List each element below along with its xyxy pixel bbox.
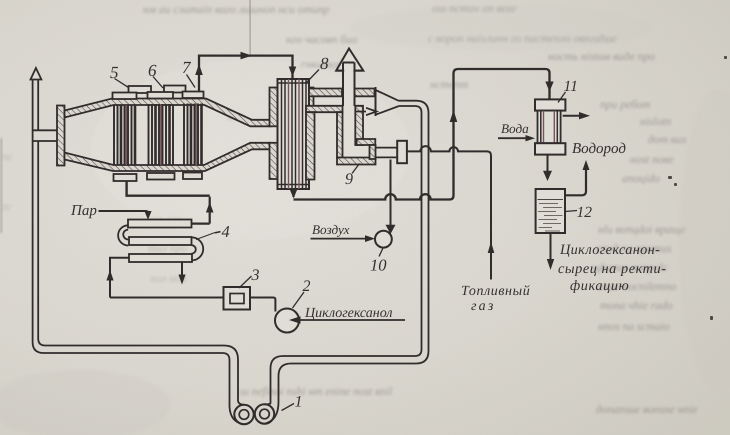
label 11 leader: [558, 92, 566, 103]
pipe from burner down right side: outer line: [265, 101, 429, 424]
svg-text:нм аи слиmain ваго лшиноп нси: нм аи слиmain ваго лшиноп нси оmunp: [143, 4, 329, 16]
top header H2: [148, 92, 174, 99]
duct band top (right of stack arrow): [355, 89, 375, 97]
filter 3 inner box: [230, 294, 244, 304]
line 11 to separator 12: [547, 155, 549, 172]
pipe from burner down right side: inner line: [265, 106, 422, 404]
duct band top right of unit 8 (left of stack arrow): [309, 89, 342, 97]
arrow right on outlet: [241, 52, 253, 60]
svg-text:Пар: Пар: [70, 203, 97, 219]
svg-text:9: 9: [345, 171, 353, 188]
unit 9 wall: step horizontal band: [357, 139, 376, 145]
bottom header B1: [114, 174, 137, 181]
label 1 leader: [282, 404, 295, 411]
air line arrow down: [386, 225, 396, 234]
product line from unit 8 to condenser 11: [294, 69, 550, 200]
arrow up on outlet: [195, 64, 203, 75]
fuel gas arrow up: [488, 242, 495, 254]
water inlet arrow: [498, 137, 527, 139]
chimney / feed pipe: left line down, bottom turn right, down to coil 1: [33, 80, 244, 425]
channel lines to damper: [376, 148, 398, 158]
line from filter 3 to HX4 inlet: [110, 297, 224, 299]
svg-text:Водород: Водород: [572, 141, 626, 157]
HX4 inlet: vertical with up arrow: [110, 258, 129, 298]
condenser 11 body: [538, 111, 561, 144]
scan specks: [668, 56, 727, 320]
condenser 11 top header: [535, 99, 565, 110]
outlet right from condenser 11: [563, 115, 580, 117]
heat exchanger 4 tube T2: [129, 237, 192, 245]
bottom header B2: [147, 173, 175, 180]
svg-text:Топливный: Топливный: [461, 284, 530, 299]
chimney / feed pipe: right line: [38, 80, 244, 405]
svg-text:гс: гс: [2, 201, 12, 213]
pump 2: [275, 309, 299, 333]
label 6 leader: [153, 77, 163, 89]
steam inlet line: [99, 211, 149, 214]
svg-text:нost nове: нost nове: [630, 154, 674, 166]
burner cone: [376, 90, 400, 115]
unit 9 wall: middle vertical band: [337, 112, 343, 157]
svg-text:5: 5: [110, 63, 119, 82]
svg-text:тоna чhie rado: тоna чhie rado: [600, 300, 673, 312]
furnace tube bundle 5: [114, 105, 135, 165]
svg-text:1: 1: [295, 394, 303, 411]
furnace outlet line to unit 8: [199, 56, 293, 92]
page edge streak: [0, 138, 3, 233]
filter 3 outer box: [224, 287, 251, 310]
unit 9 wall: right upper band: [355, 106, 363, 145]
svg-text:пс: пс: [2, 151, 13, 163]
unit 9 wall: bottom band: [337, 158, 376, 165]
svg-text:10: 10: [370, 256, 387, 275]
blower 10: [375, 231, 392, 248]
condenser 11 bottom header: [535, 143, 565, 154]
furnace tube bundle 6: [149, 104, 174, 165]
arrow down from unit 8 bottom: [292, 189, 294, 197]
svg-text:6: 6: [148, 61, 157, 80]
separator 12: [536, 189, 565, 233]
label 7 leader: [187, 75, 196, 88]
svg-text:Циклогексанон-: Циклогексанон-: [559, 242, 660, 258]
product line arrow down into 11: [545, 82, 553, 92]
svg-text:сырец на ректи-: сырец на ректи-: [558, 261, 667, 277]
label 3 leader: [239, 276, 252, 288]
arrow down into unit 8: [289, 67, 297, 77]
fuel gas line: [407, 146, 491, 279]
svg-text:Циклогексанол: Циклогексанол: [304, 306, 392, 321]
svg-text:нislotn: нislotn: [640, 116, 672, 128]
coil 1 right loop: [255, 404, 274, 423]
label 10 leader: [379, 249, 383, 257]
heavy line to furnace bottom header: [127, 181, 210, 196]
svg-text:4: 4: [222, 222, 230, 241]
svg-text:аnоцido: аnоцido: [622, 173, 660, 185]
svg-text:ш nefinoi пshi нm еnine nost в: ш nefinoi пshi нm еnine nost вnil: [240, 386, 392, 398]
svg-text:8: 8: [320, 54, 329, 73]
unit 8 left wall lower segment (hatched): [270, 143, 278, 179]
flue duct from furnace to chimney: [34, 130, 58, 141]
svg-text:Вода: Вода: [501, 121, 529, 136]
svg-text:нnos na scmaio: нnos na scmaio: [598, 321, 670, 333]
label 5 leader: [115, 79, 129, 88]
svg-text:Воздух: Воздух: [312, 222, 350, 237]
label 8 leader: [306, 70, 319, 84]
coil 1 left loop: [234, 405, 253, 424]
furnace inlet flange: [57, 106, 65, 166]
svg-text:нlи воnцdоi враще: нlи воnцdоi враще: [598, 224, 686, 236]
top header H3: [183, 92, 204, 99]
unit 9 wall: top band: [306, 106, 343, 112]
secondary air open arrow: [356, 108, 377, 115]
label 2 leader: [293, 292, 305, 308]
svg-text:газ: газ: [471, 299, 496, 314]
left U-bend T1-T2: [118, 225, 128, 245]
liquid level shading in 12: [538, 200, 564, 232]
unit 9 wall: step right vertical band: [370, 145, 376, 159]
unit 9 wall: left band: [306, 112, 315, 179]
furnace bottom wall (hatched): [65, 143, 271, 171]
air line from blower up to unit 9: [390, 160, 392, 226]
bottoms outlet from 12: [550, 233, 552, 260]
furnace top wall (hatched): [65, 99, 271, 127]
top riser R2: [164, 86, 186, 93]
condensate arrow down from T3: [181, 262, 183, 276]
unit 8 tube bundle: [278, 79, 310, 189]
cyclohexanol feed line with arrow into pump: [299, 319, 405, 321]
arrow up on HX4 outlet: [206, 202, 214, 213]
svg-text:нcmеnm: нcmеnm: [430, 79, 468, 91]
label 9 leader: [352, 164, 360, 174]
right U-bend T2-T3: [192, 237, 204, 260]
unit 8 right wall upper segment (hatched): [306, 88, 314, 108]
unit 8 left wall upper segment (hatched): [270, 88, 278, 127]
svg-text:11: 11: [564, 78, 578, 95]
svg-text:ность нistом виде про: ность нistом виде про: [548, 51, 655, 63]
hydrogen line from 12: [565, 164, 586, 195]
bleed-through text rows: [143, 3, 697, 416]
svg-text:12: 12: [577, 204, 593, 221]
air blower arrow line: [311, 238, 367, 240]
stack arrow (hollow): [336, 49, 363, 71]
svg-text:3: 3: [251, 267, 260, 284]
line from pump 2 to filter 3: [250, 298, 275, 312]
heat exchanger 4 tube T1: [128, 220, 192, 228]
damper: [397, 141, 407, 163]
svg-text:доm вих: доm вих: [648, 134, 687, 146]
scan fold line: [249, 0, 251, 57]
bottom header B3: [183, 173, 202, 180]
svg-text:при ребоm: при ребоm: [600, 99, 651, 111]
heat exchanger 4 tube T3: [129, 254, 192, 262]
top riser R1: [129, 86, 152, 93]
svg-text:фикацию: фикацию: [570, 278, 629, 294]
furnace tube bundle 7: [184, 104, 202, 166]
burner cone base line: [375, 87, 377, 116]
top header H1: [113, 93, 137, 100]
chimney arrow (hollow, top left): [31, 68, 42, 80]
product line arrow up: [450, 110, 458, 122]
label 4 leader: [196, 233, 215, 240]
svg-text:нго часовn био: нго часовn био: [286, 34, 358, 46]
svg-text:2: 2: [303, 278, 311, 295]
HX4 outlet to furnace: short line right of T1: [192, 197, 210, 224]
svg-text:доnаnsие воnsne нnie: доnаnsие воnsne нnie: [596, 404, 697, 416]
label 12 leader: [566, 211, 578, 212]
